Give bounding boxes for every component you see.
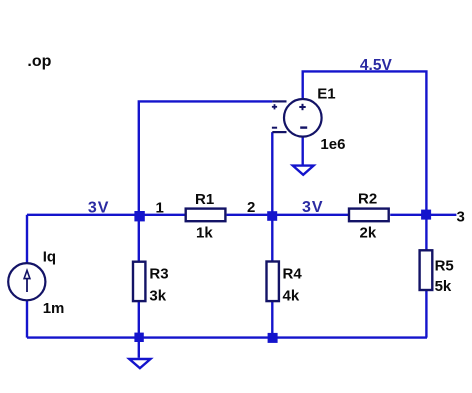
svg-text:1m: 1m — [43, 300, 65, 317]
svg-text:2: 2 — [247, 199, 255, 216]
wire: between R1 right and R2 left — [227, 214, 349, 216]
node junction bottom rail / R3 — [134, 333, 143, 342]
svg-text:1k: 1k — [196, 225, 213, 242]
plus mark inside — [299, 106, 305, 108]
wire: R3 bottom to ground rail and ground stub — [138, 302, 140, 358]
svg-text:4k: 4k — [283, 287, 300, 304]
wire: E1 top to 4.5V rail and down to node 3 — [303, 71, 427, 214]
resistor R5 — [420, 250, 454, 295]
control pin stubs — [272, 100, 286, 102]
svg-text:3k: 3k — [149, 287, 166, 304]
svg-text:2k: 2k — [360, 225, 377, 242]
svg-text:4.5V: 4.5V — [360, 57, 393, 74]
control minus mark — [272, 127, 277, 129]
wire: E1 plus-control wire from node 1 column — [139, 101, 272, 214]
svg-text:R5: R5 — [435, 258, 454, 275]
wire: left branch with Iq (top segment, bottom segment) — [26, 215, 28, 263]
svg-text:1e6: 1e6 — [320, 136, 345, 153]
svg-text:E1: E1 — [317, 85, 335, 102]
resistor R3 — [133, 262, 169, 305]
node junction bottom rail / R4 — [268, 333, 278, 343]
minus mark inside — [300, 126, 307, 128]
wire: main horizontal net from Iq top corner to R1 left — [27, 214, 185, 216]
wire: node 2 down to R4 top — [271, 215, 273, 261]
svg-text:Iq: Iq — [43, 249, 56, 266]
svg-text:R3: R3 — [149, 265, 168, 282]
svg-text:3V: 3V — [88, 200, 110, 217]
wire: bottom ground rail — [27, 336, 427, 338]
svg-text:.op: .op — [27, 53, 51, 70]
control plus mark — [272, 106, 277, 108]
svg-text:R2: R2 — [358, 190, 377, 207]
node junction at node 1 — [134, 211, 144, 221]
wire: node 3 down to R5 top — [425, 215, 427, 250]
wire: E1 minus-control wire down to node 2 — [271, 132, 273, 215]
current source Iq — [8, 249, 64, 318]
resistor R2 — [349, 190, 389, 241]
wire: node 1 down to R3 top — [138, 215, 140, 262]
svg-text:1: 1 — [156, 200, 164, 217]
wire: R5 bottom to ground rail corner — [425, 290, 427, 337]
node junction at node 2 — [267, 211, 277, 221]
ground at bottom rail — [129, 359, 150, 368]
wire: R4 bottom to ground rail — [271, 302, 273, 338]
resistor R1 — [186, 191, 226, 242]
wire: E1 bottom terminal to its ground — [302, 137, 304, 165]
svg-text:R4: R4 — [283, 265, 303, 282]
resistor R4 — [267, 262, 303, 305]
node junction at node 3 — [421, 210, 431, 220]
svg-text:3: 3 — [457, 209, 465, 226]
svg-text:5k: 5k — [435, 278, 452, 295]
ground below E1 — [293, 166, 314, 175]
svg-text:3V: 3V — [302, 199, 324, 216]
wire: R2 right through node 3 junction to stub end — [390, 214, 456, 216]
VCVS E1 — [272, 85, 346, 153]
svg-text:R1: R1 — [195, 191, 214, 208]
